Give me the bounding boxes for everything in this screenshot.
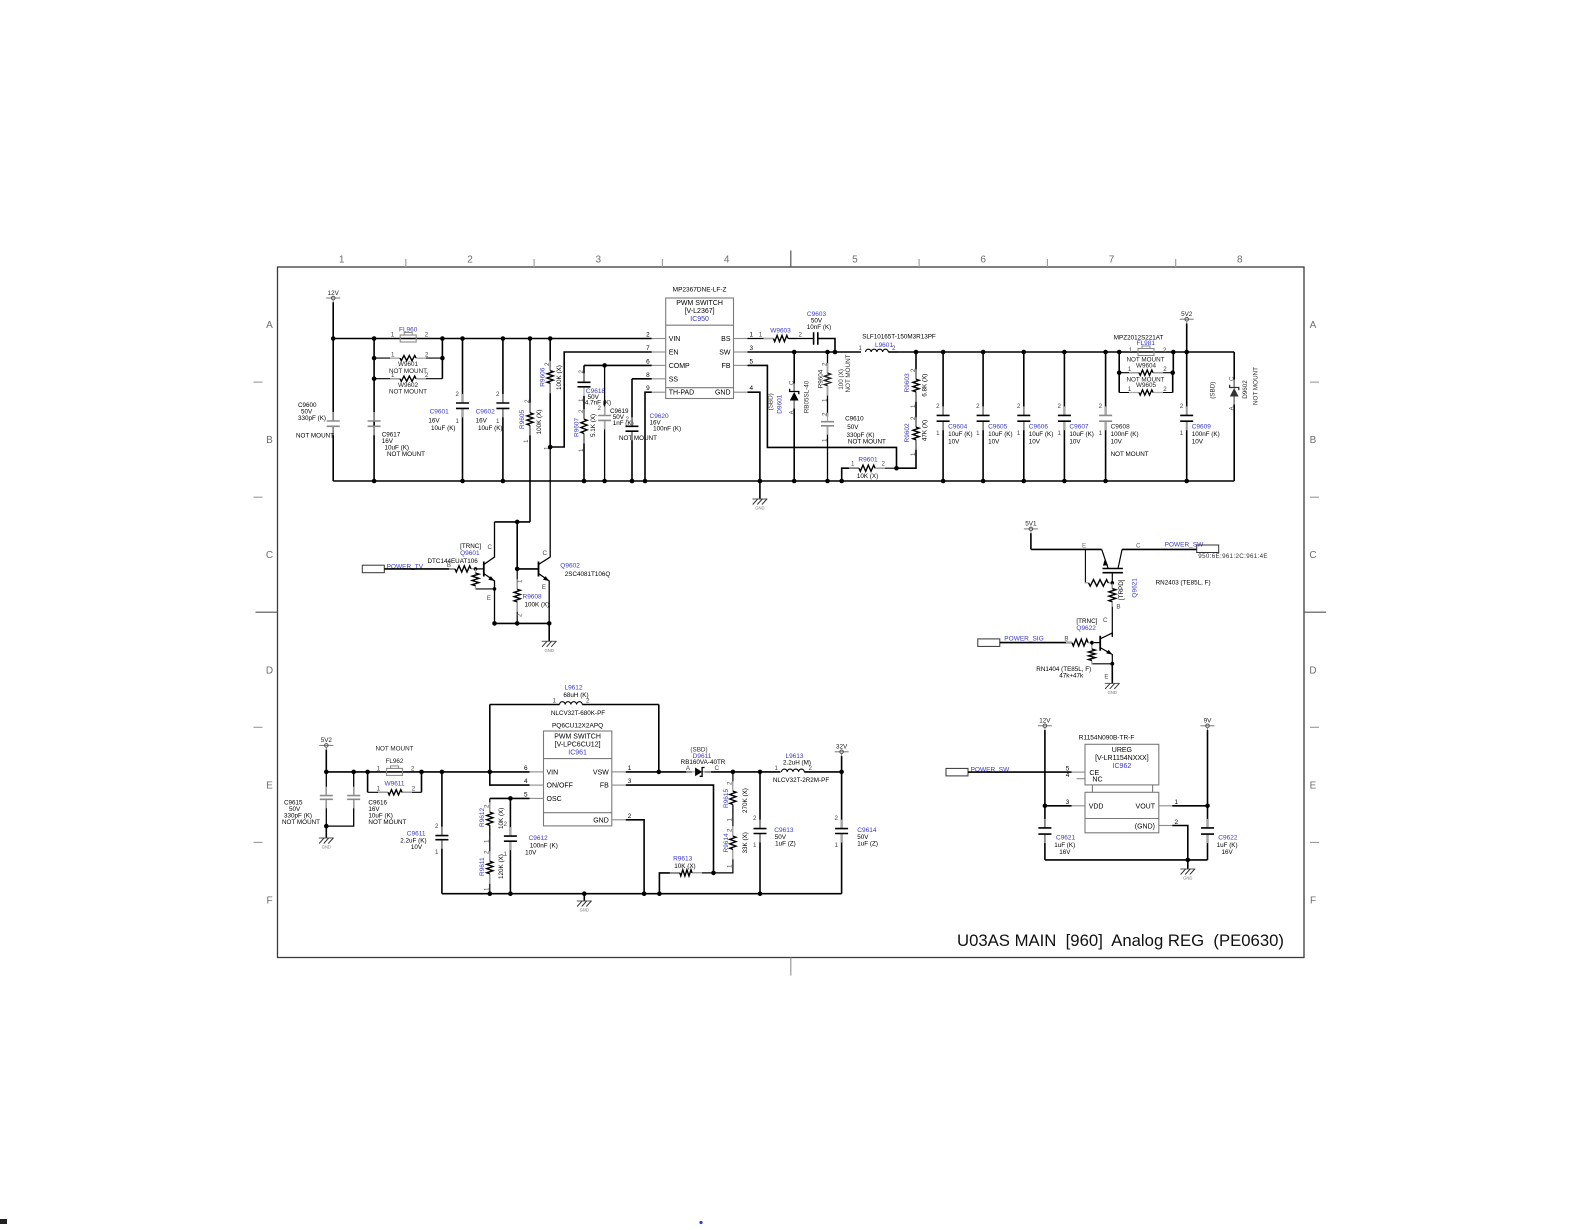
tag POWER_SIG: [978, 636, 1072, 647]
resistor R9614: [714, 805, 750, 873]
svg-text:D: D: [266, 665, 273, 676]
svg-text:C9622: C9622: [1218, 835, 1238, 842]
diode D9601: [768, 352, 811, 481]
svg-text:L9612: L9612: [564, 684, 582, 691]
svg-text:2: 2: [425, 332, 429, 339]
svg-text:C9606: C9606: [1029, 423, 1049, 430]
wire VOUT net: [1172, 805, 1207, 807]
svg-text:NOT MOUNT: NOT MOUNT: [1253, 367, 1260, 405]
power terminal 32V: [835, 744, 849, 772]
filter FL960: [391, 327, 429, 343]
resistor R9607: [574, 396, 598, 481]
svg-text:100nF (K): 100nF (K): [1111, 431, 1139, 438]
svg-text:1: 1: [553, 698, 557, 705]
svg-text:NOT MOUNT: NOT MOUNT: [387, 451, 425, 458]
svg-text:8: 8: [1237, 255, 1243, 266]
svg-text:50V: 50V: [847, 424, 859, 431]
svg-text:IC950: IC950: [690, 316, 709, 323]
svg-text:6: 6: [980, 255, 986, 266]
svg-text:POWER_SIG: POWER_SIG: [1004, 636, 1043, 643]
svg-text:R9605: R9605: [519, 409, 526, 429]
svg-text:2: 2: [1017, 403, 1021, 410]
svg-text:COMP: COMP: [669, 363, 690, 370]
svg-text:1: 1: [859, 345, 863, 352]
svg-text:1uF (K): 1uF (K): [1054, 842, 1075, 849]
svg-text:R9606: R9606: [540, 367, 547, 387]
svg-text:2: 2: [425, 372, 429, 379]
svg-text:2: 2: [1099, 403, 1103, 410]
svg-text:1: 1: [821, 398, 828, 402]
power terminal 9V: [1201, 718, 1215, 809]
svg-text:9: 9: [646, 385, 650, 392]
wire 5V2 VIN rail: [324, 770, 530, 775]
inductor L9601: [859, 333, 936, 352]
svg-text:100nF (K): 100nF (K): [1192, 431, 1220, 438]
svg-text:16V: 16V: [428, 418, 440, 425]
svg-text:NLCV32T-2R2M-PF: NLCV32T-2R2M-PF: [773, 777, 829, 784]
svg-text:RB05SL-40: RB05SL-40: [804, 380, 811, 413]
svg-text:GND: GND: [545, 648, 554, 653]
svg-text:A: A: [1310, 320, 1317, 331]
svg-text:2: 2: [1180, 403, 1184, 410]
resistor R9601: [842, 457, 899, 482]
svg-text:1: 1: [504, 851, 508, 858]
svg-text:C9609: C9609: [1192, 423, 1212, 430]
svg-text:NOT MOUNT: NOT MOUNT: [845, 354, 852, 392]
svg-text:PWM SWITCH: PWM SWITCH: [554, 733, 601, 740]
svg-text:2: 2: [578, 409, 585, 413]
capacitor C9618: [578, 365, 612, 406]
wire ON/OFF net: [490, 772, 530, 785]
svg-text:2: 2: [646, 332, 650, 339]
svg-text:1: 1: [377, 786, 381, 793]
svg-text:Q9602: Q9602: [560, 563, 580, 570]
capacitor C9616: [326, 772, 406, 826]
svg-text:B: B: [1310, 435, 1317, 446]
svg-text:2: 2: [753, 815, 757, 822]
wire output 5V2 rail: [898, 350, 1234, 355]
svg-text:1: 1: [727, 864, 734, 868]
svg-text:D: D: [1309, 665, 1316, 676]
svg-text:1: 1: [377, 765, 381, 772]
svg-text:B: B: [266, 435, 273, 446]
svg-text:100nF (K): 100nF (K): [530, 842, 558, 849]
svg-text:NOT MOUNT: NOT MOUNT: [375, 746, 413, 753]
svg-text:C9601: C9601: [430, 409, 450, 416]
svg-text:1: 1: [851, 461, 855, 468]
svg-text:F: F: [266, 896, 272, 907]
svg-text:2: 2: [435, 823, 439, 830]
svg-text:GND: GND: [755, 506, 764, 511]
svg-text:IC962: IC962: [1113, 763, 1132, 770]
svg-text:10V: 10V: [948, 438, 960, 445]
svg-text:BS: BS: [721, 336, 731, 343]
svg-text:R9601: R9601: [858, 457, 878, 464]
ground GND IC961: [577, 894, 592, 913]
svg-text:(GND): (GND): [1135, 823, 1155, 830]
wire EN net: [548, 352, 652, 449]
svg-text:950:6E:961:2C:961:4E: 950:6E:961:2C:961:4E: [1198, 553, 1268, 560]
IC950 pins: [646, 332, 753, 397]
svg-text:10uF (K): 10uF (K): [478, 425, 503, 432]
svg-text:[V-L2367]: [V-L2367]: [685, 308, 715, 315]
svg-text:1uF (Z): 1uF (Z): [857, 841, 878, 848]
svg-text:FB: FB: [600, 783, 609, 790]
svg-text:E: E: [1082, 542, 1086, 549]
svg-text:GND: GND: [715, 390, 731, 397]
capacitor C9620: [626, 379, 682, 481]
svg-text:R9602: R9602: [904, 423, 911, 443]
svg-text:2: 2: [524, 399, 531, 403]
svg-text:100K (X): 100K (X): [525, 602, 550, 609]
svg-text:16V: 16V: [1222, 849, 1234, 856]
svg-text:Q9622: Q9622: [1076, 625, 1096, 632]
svg-text:2SC4081T106Q: 2SC4081T106Q: [565, 571, 611, 578]
svg-text:100 (X): 100 (X): [838, 369, 845, 390]
svg-text:PQ6CU12X2APQ: PQ6CU12X2APQ: [552, 723, 603, 730]
wire W9604/W9605 frame: [1117, 352, 1175, 393]
svg-text:4: 4: [524, 778, 528, 785]
svg-text:L9601: L9601: [875, 342, 893, 349]
svg-text:270K (X): 270K (X): [742, 788, 749, 813]
svg-text:1: 1: [1128, 366, 1132, 373]
svg-text:E: E: [266, 780, 273, 791]
ground GND IC962: [1180, 860, 1195, 881]
svg-text:5: 5: [852, 255, 858, 266]
svg-text:[TRPD]: [TRPD]: [1118, 579, 1125, 600]
svg-text:R9613: R9613: [673, 856, 693, 863]
svg-text:10V: 10V: [1192, 438, 1204, 445]
svg-text:SLF10165T-150M3R13PF: SLF10165T-150M3R13PF: [862, 333, 936, 340]
svg-text:W9611: W9611: [384, 780, 404, 787]
svg-text:2: 2: [910, 416, 917, 420]
svg-text:DTC144EUAT106: DTC144EUAT106: [428, 558, 479, 565]
svg-text:4: 4: [724, 255, 730, 266]
ground GND Q9602: [542, 641, 557, 653]
svg-text:1uF (K): 1uF (K): [1217, 842, 1238, 849]
svg-text:[V-LPC6CU12]: [V-LPC6CU12]: [555, 741, 601, 748]
svg-text:33K (X): 33K (X): [742, 832, 749, 853]
ground GND C9615: [319, 826, 334, 849]
svg-text:1: 1: [517, 579, 524, 583]
svg-text:C9607: C9607: [1069, 423, 1089, 430]
svg-text:1uF (Z): 1uF (Z): [775, 841, 796, 848]
power terminal 5V1: [1024, 521, 1038, 550]
svg-text:C9621: C9621: [1056, 835, 1076, 842]
svg-text:R9604: R9604: [818, 369, 825, 388]
svg-text:SS: SS: [669, 376, 679, 383]
svg-text:MPZ2012S221AT: MPZ2012S221AT: [1114, 334, 1164, 341]
svg-text:5: 5: [524, 791, 528, 798]
svg-text:GND: GND: [580, 908, 589, 913]
svg-text:10V: 10V: [525, 850, 537, 857]
diode D9611: [681, 747, 729, 777]
svg-text:NOT MOUNT: NOT MOUNT: [389, 388, 427, 395]
svg-text:100K (X): 100K (X): [536, 410, 543, 435]
capacitor C9619: [598, 365, 658, 481]
svg-text:NLCV32T-680K-PF: NLCV32T-680K-PF: [551, 710, 605, 717]
svg-text:16V: 16V: [1059, 849, 1071, 856]
svg-text:10V: 10V: [411, 844, 423, 851]
resistor W9601: [374, 352, 442, 375]
resistor R9604: [818, 352, 853, 417]
capacitor C9600: [296, 339, 340, 482]
svg-text:2: 2: [936, 403, 940, 410]
resistor R9608: [514, 569, 549, 624]
svg-text:W9603: W9603: [770, 328, 791, 335]
svg-text:6.8K (X): 6.8K (X): [922, 374, 929, 397]
svg-text:2: 2: [910, 368, 917, 372]
op-amp U2 IC961 PWM switch box: [544, 723, 612, 826]
svg-text:1: 1: [750, 332, 754, 339]
svg-text:Q9621: Q9621: [1132, 578, 1139, 598]
svg-text:C: C: [1309, 550, 1316, 561]
svg-text:2: 2: [976, 403, 980, 410]
transistor Q9622: [1036, 617, 1114, 683]
grid ticks: [254, 251, 1327, 976]
svg-text:2: 2: [598, 405, 602, 412]
svg-text:[V-LR1154NXXX]: [V-LR1154NXXX]: [1095, 755, 1149, 762]
svg-text:TH-PAD: TH-PAD: [669, 390, 695, 397]
op-amp U3 IC962 UREG box: [1079, 734, 1159, 832]
wire SS net: [632, 378, 652, 380]
svg-text:C: C: [543, 550, 548, 557]
capacitor C9608: [1099, 352, 1149, 481]
svg-text:2: 2: [727, 781, 734, 785]
svg-text:2: 2: [504, 821, 508, 828]
svg-text:NOT MOUNT: NOT MOUNT: [1111, 451, 1149, 458]
svg-text:GND: GND: [322, 845, 331, 850]
capacitor C9606: [1017, 352, 1053, 481]
border frame: [278, 267, 1305, 958]
svg-text:1: 1: [435, 849, 439, 856]
capacitor C9611: [400, 772, 448, 894]
wire IC950 GND net: [748, 392, 760, 481]
resistor R9602: [897, 416, 929, 468]
svg-text:VSW: VSW: [593, 769, 609, 776]
svg-text:330pF (K): 330pF (K): [298, 415, 326, 422]
svg-text:1: 1: [976, 430, 980, 437]
svg-text:3: 3: [628, 778, 632, 785]
svg-text:E: E: [487, 595, 491, 602]
capacitor C9617: [368, 412, 426, 458]
resistor R9615: [723, 772, 749, 822]
tag POWER_TV: [362, 563, 455, 572]
svg-text:1: 1: [759, 332, 763, 339]
svg-text:VIN: VIN: [669, 336, 681, 343]
inductor L9613: [773, 753, 844, 784]
svg-text:1: 1: [523, 439, 530, 443]
svg-text:C9608: C9608: [1111, 423, 1131, 430]
svg-text:E: E: [542, 584, 546, 591]
page artifact marks: [0, 1219, 703, 1224]
svg-text:A: A: [266, 320, 273, 331]
power terminal 12V bottom: [1038, 718, 1052, 809]
wire R9605 to Q9602 base: [495, 520, 539, 572]
IC962 pins: [1066, 765, 1179, 830]
svg-text:3: 3: [750, 345, 754, 352]
capacitor C9607: [1057, 352, 1093, 481]
svg-text:2: 2: [1163, 366, 1167, 373]
svg-text:8: 8: [646, 372, 650, 379]
capacitor C9622: [1201, 806, 1238, 860]
svg-text:10K (X): 10K (X): [674, 863, 695, 870]
svg-text:R9603: R9603: [904, 373, 911, 393]
capacitor C9615: [282, 772, 333, 828]
svg-text:1: 1: [910, 404, 917, 408]
svg-text:VIN: VIN: [547, 769, 559, 776]
svg-text:IC961: IC961: [568, 749, 587, 756]
svg-text:2: 2: [821, 362, 828, 366]
svg-text:1: 1: [578, 448, 585, 452]
svg-text:7: 7: [1109, 255, 1115, 266]
svg-text:C: C: [1229, 376, 1236, 381]
svg-text:1: 1: [821, 438, 828, 442]
capacitor C9601: [428, 339, 469, 482]
svg-text:1: 1: [775, 765, 779, 772]
svg-text:C9612: C9612: [529, 835, 549, 842]
svg-text:2: 2: [835, 815, 839, 822]
svg-text:GND: GND: [1183, 876, 1192, 881]
svg-text:B: B: [1064, 636, 1068, 643]
svg-text:W9604: W9604: [1136, 362, 1156, 369]
wire FB net: [748, 365, 897, 468]
wire TH-PAD net: [645, 392, 652, 481]
capacitor C9602: [476, 339, 510, 482]
capacitor C9610: [821, 412, 886, 481]
svg-text:R9611: R9611: [479, 857, 486, 876]
wire GND rail top circuit: [333, 479, 1234, 484]
resistor R9613: [659, 856, 715, 894]
svg-text:1: 1: [1099, 430, 1103, 437]
svg-text:1: 1: [1057, 430, 1061, 437]
wire 12V rail: [333, 338, 652, 340]
svg-text:10uF (K): 10uF (K): [948, 431, 973, 438]
svg-text:2: 2: [411, 765, 415, 772]
capacitor C9614: [835, 772, 878, 894]
wire VSW net: [626, 770, 692, 775]
svg-text:10nF (K): 10nF (K): [807, 324, 832, 331]
svg-text:C: C: [1136, 542, 1141, 549]
svg-text:R9612: R9612: [479, 807, 486, 827]
svg-text:4: 4: [750, 385, 754, 392]
svg-text:1: 1: [753, 842, 757, 849]
svg-text:2: 2: [517, 613, 524, 617]
grid labels: [266, 255, 1317, 907]
svg-text:C: C: [1103, 617, 1108, 624]
svg-text:EN: EN: [669, 350, 679, 357]
svg-text:10uF (K): 10uF (K): [431, 425, 456, 432]
svg-text:SW: SW: [719, 350, 731, 357]
svg-text:D9602: D9602: [1242, 380, 1249, 399]
svg-text:C9605: C9605: [988, 423, 1008, 430]
svg-text:10uF (K): 10uF (K): [1029, 431, 1054, 438]
wire VDD net: [1045, 805, 1072, 807]
wire GND rail IC961: [442, 891, 842, 896]
svg-text:6: 6: [524, 765, 528, 772]
svg-text:16V: 16V: [476, 418, 488, 425]
resistor R9606: [540, 339, 564, 451]
svg-text:2: 2: [882, 461, 886, 468]
svg-text:R9615: R9615: [723, 788, 730, 808]
resistor R9611: [479, 825, 505, 893]
svg-text:R9614: R9614: [723, 833, 730, 853]
svg-text:1: 1: [456, 418, 460, 425]
svg-text:1: 1: [1017, 430, 1021, 437]
resistor W9604: [1119, 357, 1173, 376]
svg-text:NOT MOUNT: NOT MOUNT: [389, 368, 427, 375]
IC961 pins: [524, 765, 632, 824]
svg-text:UREG: UREG: [1112, 747, 1132, 754]
svg-text:1: 1: [1129, 347, 1133, 354]
svg-text:2: 2: [544, 362, 551, 366]
resistor W9605: [1119, 376, 1173, 395]
svg-text:1: 1: [484, 887, 491, 891]
svg-text:NOT MOUNT: NOT MOUNT: [296, 433, 334, 440]
svg-text:10uF (K): 10uF (K): [1069, 431, 1094, 438]
resistor R9605: [519, 339, 543, 522]
resistor W9603: [748, 328, 799, 342]
svg-text:VOUT: VOUT: [1136, 804, 1156, 811]
wire FB961 net: [626, 785, 714, 873]
svg-text:E: E: [1310, 780, 1317, 791]
svg-text:10V: 10V: [1029, 438, 1041, 445]
op-amp U1 IC950 PWM switch box: [666, 287, 734, 399]
diode D9602: [1210, 352, 1260, 481]
svg-text:C: C: [266, 550, 273, 561]
svg-text:2: 2: [412, 786, 416, 793]
wire IC961 GND net: [626, 820, 644, 894]
svg-text:1: 1: [1180, 430, 1184, 437]
svg-text:2: 2: [484, 804, 491, 808]
svg-text:E: E: [1104, 674, 1108, 681]
svg-text:2: 2: [467, 255, 473, 266]
svg-text:68uH (K): 68uH (K): [563, 692, 588, 699]
svg-text:47k+47k: 47k+47k: [1059, 672, 1084, 679]
svg-text:47K (X): 47K (X): [922, 420, 929, 441]
svg-text:1: 1: [339, 255, 345, 266]
svg-text:1: 1: [910, 452, 917, 456]
wire VSW to 32V rail: [729, 770, 781, 775]
svg-text:2: 2: [1163, 347, 1167, 354]
capacitor C9605: [976, 352, 1012, 481]
svg-text:NC: NC: [1092, 777, 1102, 784]
transistor Q9602: [539, 447, 611, 623]
svg-text:1: 1: [936, 430, 940, 437]
capacitor C9621: [1038, 806, 1075, 860]
svg-text:2: 2: [484, 850, 491, 854]
svg-text:NOT MOUNT: NOT MOUNT: [848, 438, 886, 445]
svg-text:FL960: FL960: [399, 327, 418, 334]
capacitor C9613: [753, 772, 796, 894]
svg-text:100K (X): 100K (X): [556, 365, 563, 390]
svg-text:2: 2: [727, 828, 734, 832]
svg-text:2: 2: [1057, 403, 1061, 410]
svg-text:10K (X): 10K (X): [857, 473, 878, 480]
svg-text:(SBD): (SBD): [1210, 382, 1217, 399]
svg-text:U03AS MAIN [960] Analog REG: U03AS MAIN [960] Analog REG (PE0630): [957, 931, 1284, 950]
svg-text:OSC: OSC: [547, 796, 562, 803]
wire IC962 GND net: [1172, 826, 1190, 863]
transistor Q9621: [1031, 542, 1211, 636]
svg-text:1: 1: [391, 352, 395, 359]
capacitor C9609: [1180, 352, 1220, 481]
svg-text:100nF (K): 100nF (K): [653, 426, 681, 433]
power terminal 5V2 bottom: [319, 737, 333, 772]
svg-text:10uF (K): 10uF (K): [988, 431, 1013, 438]
svg-text:2: 2: [1163, 386, 1167, 393]
svg-text:B: B: [1116, 604, 1120, 611]
